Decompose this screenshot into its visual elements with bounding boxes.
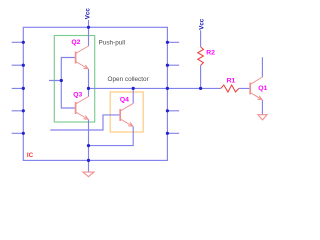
svg-text:R1: R1	[227, 78, 236, 85]
svg-text:Vcc: Vcc	[198, 18, 205, 30]
svg-text:Push-pull: Push-pull	[99, 39, 126, 46]
svg-text:Q2: Q2	[71, 39, 80, 46]
svg-text:Q4: Q4	[120, 97, 129, 104]
svg-text:Q1: Q1	[258, 85, 267, 92]
svg-text:Vcc: Vcc	[85, 8, 92, 20]
svg-text:Open collector: Open collector	[108, 76, 150, 83]
svg-text:R2: R2	[206, 50, 215, 57]
svg-text:Q3: Q3	[73, 92, 82, 99]
svg-text:IC: IC	[27, 152, 34, 159]
